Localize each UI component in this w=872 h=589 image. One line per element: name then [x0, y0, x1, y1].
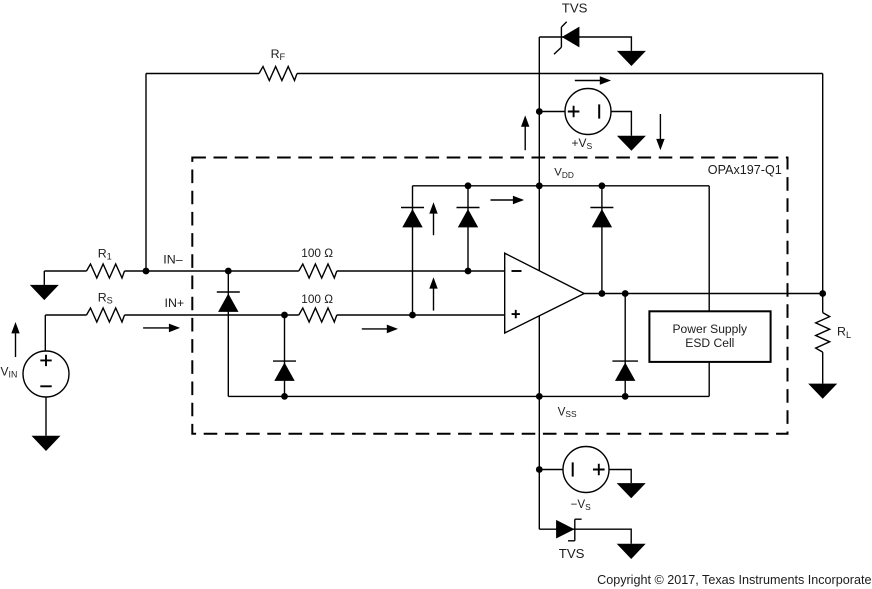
- wire VDD branch to IN+ (through D1): [412, 186, 414, 315]
- svg-text:+VS: +VS: [572, 136, 593, 151]
- junction dot feedback/IN-: [143, 268, 150, 275]
- svg-text:TVS: TVS: [559, 546, 585, 561]
- arrow right (after RS): [143, 324, 180, 333]
- IC boundary dashed box: [192, 158, 787, 434]
- output wire: [584, 293, 823, 295]
- wire -Vs to ground: [609, 470, 631, 484]
- wire IN- left end to ground: [43, 271, 45, 285]
- wire VDD branch to output (through D3): [601, 186, 603, 294]
- feedback wire (RF net): [146, 73, 823, 75]
- wire IN- line: [44, 270, 504, 272]
- junction dot D3/VDD: [599, 182, 606, 189]
- arrow up (left of supply, above VDD): [521, 115, 529, 150]
- supply net vertical wire: [538, 37, 540, 529]
- junction dot D2/VDD: [465, 182, 472, 189]
- ESD diode D3 (VDD to OUT): [590, 208, 613, 228]
- svg-text:Power Supply: Power Supply: [672, 322, 748, 336]
- current source -Vs: [563, 447, 609, 493]
- wire VIN bottom to ground: [45, 397, 47, 436]
- junction dot D1/IN+: [409, 312, 416, 319]
- junction dot D3/OUT: [599, 290, 606, 297]
- wire OUT to RL: [822, 294, 824, 313]
- svg-text:TVS: TVS: [562, 1, 588, 16]
- resistor 100ohm (IN-): [299, 264, 337, 278]
- svg-text:RF: RF: [271, 47, 286, 62]
- wire RL to ground: [822, 352, 824, 384]
- VSS rail wire: [228, 395, 709, 397]
- arrow right (between D2 and supply): [491, 196, 525, 205]
- Power Supply ESD Cell box: [649, 311, 770, 362]
- junction dot supply/+Vs: [536, 108, 543, 115]
- svg-text:100 Ω: 100 Ω: [301, 292, 333, 306]
- svg-text:IN–: IN–: [163, 252, 182, 266]
- ground (+Vs): [617, 136, 646, 151]
- resistor RS: [87, 308, 125, 322]
- op-amp U1: [505, 253, 585, 333]
- arrow right (after 100ohm IN+): [362, 325, 398, 334]
- resistor 100ohm (IN+): [299, 308, 337, 322]
- svg-text:RS: RS: [98, 290, 113, 305]
- current source +Vs: [565, 89, 611, 135]
- arrow current (top right): [575, 76, 611, 85]
- wire VDD branch to IN- (through D2): [467, 186, 469, 271]
- junction dot OUT/RL/feedback: [819, 290, 826, 297]
- arrow up (left of VIN): [11, 322, 19, 357]
- svg-text:VIN: VIN: [1, 364, 18, 379]
- junction dot D6/VSS: [622, 393, 629, 400]
- svg-text:Copyright © 2017, Texas Instru: Copyright © 2017, Texas Instruments Inco…: [597, 573, 872, 587]
- junction dot supply/VDD: [536, 182, 543, 189]
- wire supply to +Vs source: [539, 111, 565, 113]
- ground (top TVS): [617, 51, 646, 66]
- svg-text:VSS: VSS: [558, 406, 577, 420]
- wire ESD cell box to VSS: [708, 362, 710, 397]
- arrow up (between IN- and IN+ at diodes): [429, 277, 437, 310]
- junction dot supply/-Vs: [536, 466, 543, 473]
- source VIN: [23, 351, 69, 397]
- ground (-Vs): [617, 483, 646, 498]
- wire +Vs to ground: [611, 112, 631, 136]
- svg-text:100 Ω: 100 Ω: [301, 246, 333, 260]
- wire supply to -Vs source: [539, 469, 563, 471]
- arrow down (right of +Vs ground): [656, 114, 664, 150]
- resistor R1: [87, 264, 125, 278]
- ESD diode D6 (OUT to VSS): [612, 361, 638, 381]
- svg-text:IN+: IN+: [165, 296, 185, 310]
- VDD rail wire: [413, 185, 710, 187]
- wire bottom TVS to ground: [539, 529, 631, 544]
- wire top TVS to ground: [539, 37, 631, 51]
- ESD diode D5 (IN+ to VSS): [273, 361, 296, 381]
- resistor RF: [259, 67, 297, 81]
- junction dot D4/IN-: [225, 268, 232, 275]
- wire IN- clamp branch (through D4 to VSS): [227, 271, 229, 396]
- ground (VIN): [32, 436, 61, 451]
- junction dot supply/VSS: [536, 393, 543, 400]
- arrow up (between D1 and D2): [429, 202, 437, 235]
- ESD diode D1 (VDD to IN+): [401, 208, 424, 228]
- wire VIN top: [44, 315, 46, 351]
- junction dot D5/VSS: [281, 393, 288, 400]
- wire VDD to ESD cell box: [708, 186, 710, 311]
- svg-text:OPAx197-Q1: OPAx197-Q1: [708, 163, 782, 177]
- svg-text:RL: RL: [837, 325, 851, 340]
- ESD diode D2 (VDD to IN-): [457, 208, 480, 228]
- TVS diode (top): [554, 22, 579, 54]
- wire IN+ line: [45, 314, 504, 316]
- ground (RL): [808, 384, 837, 399]
- svg-text:R1: R1: [98, 246, 112, 261]
- resistor RL: [816, 313, 830, 353]
- junction dot D2/IN-: [465, 268, 472, 275]
- ground (IN- input): [30, 285, 59, 300]
- svg-text:−VS: −VS: [571, 498, 592, 512]
- TVS diode (bottom): [556, 519, 582, 541]
- svg-text:ESD Cell: ESD Cell: [685, 336, 734, 350]
- junction dot D6/OUT: [622, 290, 629, 297]
- ground (bottom TVS): [617, 544, 646, 559]
- ESD diode D4 (IN- to VSS): [217, 292, 240, 312]
- svg-text:VDD: VDD: [554, 167, 574, 180]
- wire IN+ clamp branch (through D5 to VSS): [284, 315, 286, 396]
- wire OUT clamp branch (through D6 to VSS): [624, 294, 626, 397]
- wire feedback left vertical: [145, 74, 147, 272]
- wire feedback right vertical: [822, 74, 824, 294]
- junction dot D5/IN+: [281, 312, 288, 319]
